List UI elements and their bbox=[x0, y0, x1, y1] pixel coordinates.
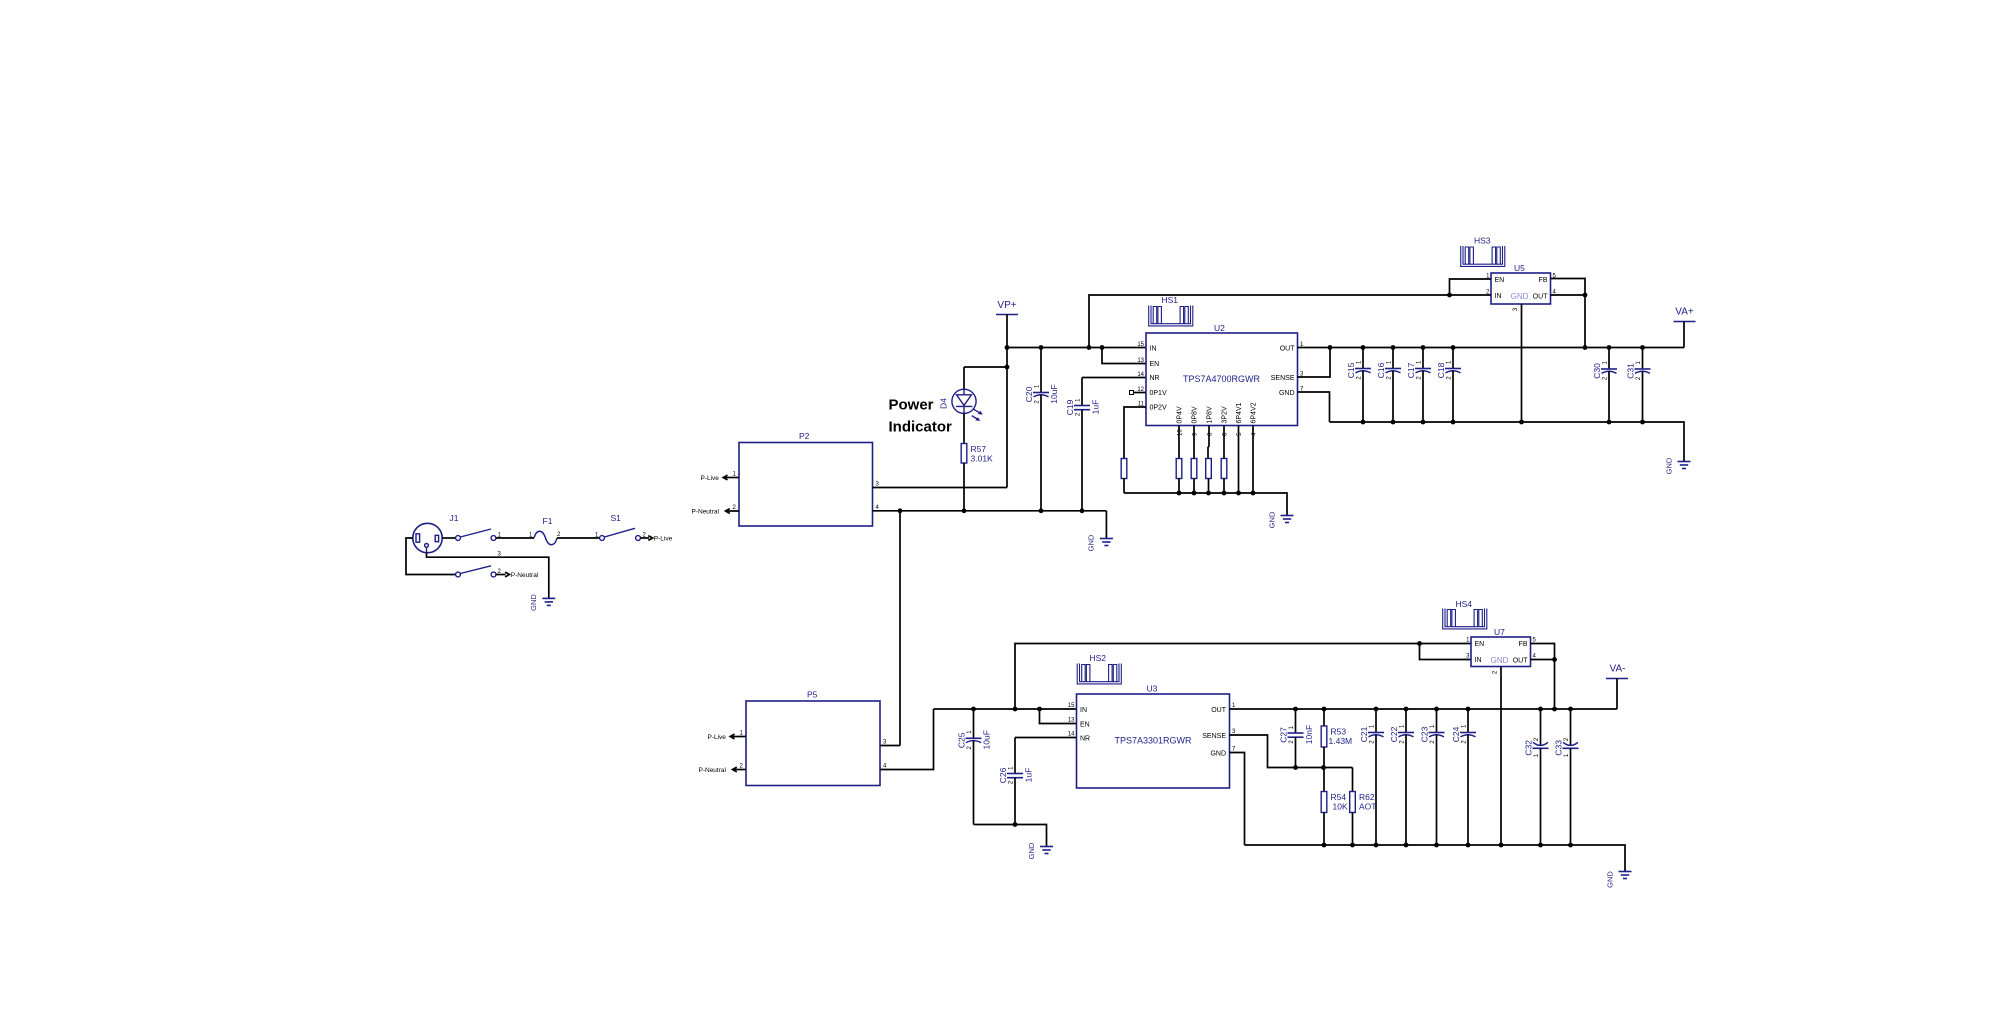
svg-text:P2: P2 bbox=[799, 431, 810, 441]
junction R57 bottom bbox=[962, 508, 967, 513]
wire C26 to U3 NR bbox=[1015, 737, 1077, 739]
svg-text:6P4V1: 6P4V1 bbox=[1236, 402, 1243, 423]
wire F1 to S1 bbox=[557, 537, 600, 539]
svg-text:GND: GND bbox=[1027, 842, 1036, 859]
capacitor C20 bbox=[1024, 348, 1059, 511]
svg-text:S1: S1 bbox=[611, 513, 622, 523]
wire P2 pin4 rail (secondary return) bbox=[873, 505, 1107, 511]
wire VP+ riser bbox=[1006, 315, 1008, 488]
svg-text:OUT: OUT bbox=[1513, 657, 1529, 664]
capacitor C32 bbox=[1524, 707, 1549, 848]
resistor R62 bbox=[1350, 768, 1377, 846]
svg-text:P5: P5 bbox=[807, 690, 818, 700]
heatsink HS4 bbox=[1443, 599, 1487, 629]
ground (VA+ output rail) bbox=[1665, 457, 1691, 474]
wire U5 GND pin down bbox=[1521, 304, 1523, 422]
power flag VA+ bbox=[1674, 307, 1696, 348]
wire resistor to gnd rail bbox=[1123, 479, 1125, 494]
wire to P-Neutral off-page bbox=[496, 574, 506, 576]
svg-text:R62: R62 bbox=[1359, 792, 1375, 802]
node P-Live (into P5 pin 1) bbox=[708, 734, 735, 741]
svg-text:EN: EN bbox=[1150, 361, 1160, 368]
svg-text:P-Neutral: P-Neutral bbox=[699, 767, 727, 774]
wire D4 to R57 bbox=[963, 413, 965, 443]
wire C19 to U2 NR bbox=[1082, 377, 1146, 379]
junction U7 EN riser bbox=[1013, 707, 1018, 712]
ground (C25 C26) bbox=[1027, 842, 1053, 859]
svg-text:C27: C27 bbox=[1279, 727, 1289, 743]
wire U2 SENSE up to OUT bbox=[1298, 348, 1331, 378]
wire U5 FB to OUT bbox=[1551, 279, 1586, 296]
svg-text:HS2: HS2 bbox=[1090, 653, 1107, 663]
svg-text:GND: GND bbox=[1511, 292, 1529, 301]
wire bottom ground rail bbox=[1245, 845, 1626, 872]
svg-text:AOT: AOT bbox=[1359, 802, 1376, 812]
wire U2 bottom pin 6P4V2 bbox=[1252, 426, 1258, 494]
svg-text:P-Neutral: P-Neutral bbox=[511, 572, 539, 579]
pin 12 no-connect stub 0P1V bbox=[1130, 391, 1147, 395]
svg-text:GND: GND bbox=[1279, 390, 1295, 397]
svg-text:F1: F1 bbox=[543, 516, 553, 526]
capacitor C23 bbox=[1420, 707, 1445, 848]
capacitor C30 bbox=[1592, 345, 1617, 424]
wire U3 input rail bbox=[934, 708, 1077, 710]
capacitor C24 bbox=[1451, 707, 1476, 848]
svg-text:1.43M: 1.43M bbox=[1329, 736, 1353, 746]
wire U2 EN branch bbox=[1102, 348, 1146, 364]
svg-text:15: 15 bbox=[1137, 342, 1144, 348]
wire main input rail to U2 IN bbox=[1007, 347, 1146, 349]
svg-text:P-Live: P-Live bbox=[654, 536, 673, 543]
capacitor C27 bbox=[1279, 707, 1315, 768]
junction C25 top bbox=[971, 707, 976, 712]
svg-text:IN: IN bbox=[1475, 657, 1482, 664]
switch contact J1 bottom bbox=[456, 566, 496, 577]
resistor R (0P2V) bbox=[1121, 459, 1127, 479]
svg-text:1uF: 1uF bbox=[1091, 400, 1101, 415]
regulator U2 TPS7A4700RGWR bbox=[1137, 323, 1304, 426]
svg-text:14: 14 bbox=[1068, 732, 1075, 738]
wire S1 to P-Live off-page bbox=[640, 537, 649, 539]
wire U3 SENSE net bbox=[1230, 735, 1353, 768]
regulator U3 TPS7A3301RGWR bbox=[1068, 684, 1236, 789]
wire U2 OUT rail bbox=[1298, 347, 1685, 349]
ground (below J1) bbox=[529, 594, 555, 611]
capacitor C15 bbox=[1346, 345, 1371, 424]
heatsink HS1 bbox=[1149, 295, 1193, 326]
svg-text:Indicator: Indicator bbox=[889, 419, 953, 436]
resistor R (0P8V) bbox=[1191, 459, 1197, 479]
capacitor C33 bbox=[1554, 707, 1579, 848]
svg-text:C31: C31 bbox=[1626, 363, 1636, 379]
svg-text:IN: IN bbox=[1495, 293, 1502, 300]
svg-text:C21: C21 bbox=[1359, 726, 1369, 742]
switch contact J1 top bbox=[456, 529, 502, 540]
wire voltage-set ground rail bbox=[1124, 493, 1287, 516]
svg-text:GND: GND bbox=[1087, 534, 1096, 551]
wire U2 bottom pin 0P4V bbox=[1178, 426, 1184, 459]
svg-text:VA+: VA+ bbox=[1675, 307, 1694, 318]
wire U5 OUT down to VA+ rail bbox=[1551, 295, 1586, 348]
wire U7 OUT down to VA- rail bbox=[1531, 660, 1555, 710]
node P-Live (off-page arrow right) bbox=[648, 536, 672, 543]
svg-text:13: 13 bbox=[1137, 358, 1144, 364]
power flag VA- bbox=[1606, 664, 1628, 710]
svg-text:P-Live: P-Live bbox=[708, 734, 727, 741]
connector J1 bbox=[413, 513, 459, 553]
junction dots set rail bbox=[1177, 491, 1182, 496]
junction VP+ rail bbox=[1005, 345, 1010, 350]
svg-text:C33: C33 bbox=[1554, 740, 1564, 756]
svg-text:GND: GND bbox=[1606, 871, 1615, 888]
svg-text:GND: GND bbox=[1268, 511, 1277, 528]
capacitor C26 bbox=[998, 738, 1034, 825]
svg-text:10uF: 10uF bbox=[982, 730, 992, 749]
svg-text:C22: C22 bbox=[1389, 726, 1399, 742]
svg-text:EN: EN bbox=[1475, 641, 1485, 648]
regulator U7 bbox=[1466, 627, 1536, 674]
svg-text:U5: U5 bbox=[1514, 263, 1525, 273]
resistor R (1P8V) bbox=[1206, 459, 1212, 479]
wire output ground rail bbox=[1330, 422, 1685, 462]
wire U2 GND to output gnd rail bbox=[1298, 392, 1330, 422]
ground (below C19 rail) bbox=[1087, 534, 1113, 551]
annotation Power Indicator bbox=[889, 397, 953, 436]
svg-text:C17: C17 bbox=[1406, 362, 1416, 378]
svg-text:HS3: HS3 bbox=[1474, 236, 1491, 246]
svg-text:U7: U7 bbox=[1494, 627, 1505, 637]
capacitor C25 bbox=[957, 709, 992, 825]
svg-text:C15: C15 bbox=[1346, 362, 1356, 378]
svg-text:FB: FB bbox=[1519, 641, 1528, 648]
capacitor C16 bbox=[1376, 345, 1401, 424]
wire U2 bottom pin 6P4V1 bbox=[1237, 426, 1243, 494]
junction U5 IN riser bbox=[1087, 345, 1092, 350]
wire P5 pin1 bbox=[730, 731, 746, 737]
svg-text:R54: R54 bbox=[1331, 792, 1347, 802]
svg-text:R53: R53 bbox=[1331, 727, 1347, 737]
wire P5 pin2 bbox=[733, 764, 747, 770]
wire U2 bottom pin 3P2V bbox=[1223, 426, 1229, 459]
svg-text:P-Neutral: P-Neutral bbox=[692, 509, 720, 516]
fuse F1 bbox=[529, 516, 561, 545]
node P-Live (into P2 pin 1) bbox=[701, 475, 728, 482]
svg-text:HS1: HS1 bbox=[1162, 295, 1179, 305]
svg-text:C32: C32 bbox=[1524, 740, 1534, 756]
wire R57 to rail bbox=[963, 463, 965, 511]
wire U3 GND down bbox=[1230, 753, 1245, 846]
svg-text:C26: C26 bbox=[998, 767, 1008, 783]
svg-text:C18: C18 bbox=[1436, 362, 1446, 378]
junction C20 top bbox=[1039, 345, 1044, 350]
wire U2 bottom pin 1P8V bbox=[1208, 426, 1214, 459]
svg-text:3P2V: 3P2V bbox=[1222, 406, 1229, 423]
svg-text:0P4V: 0P4V bbox=[1177, 406, 1184, 423]
node P-Neutral (off-page arrow right) bbox=[498, 569, 539, 579]
svg-text:SENSE: SENSE bbox=[1271, 375, 1295, 382]
wire U5 EN loop bbox=[1450, 279, 1492, 295]
svg-text:Power: Power bbox=[889, 397, 934, 414]
svg-text:3.01K: 3.01K bbox=[971, 454, 994, 464]
junction U7 IN drop bbox=[1417, 641, 1422, 646]
wire U3 OUT rail (VA- rail) bbox=[1230, 708, 1618, 710]
wire U7 GND down bbox=[1500, 667, 1502, 846]
svg-text:OUT: OUT bbox=[1211, 707, 1227, 714]
wire P2 pin3 to VP+ riser bbox=[873, 482, 1008, 488]
svg-text:13: 13 bbox=[1068, 718, 1075, 724]
svg-text:OUT: OUT bbox=[1280, 346, 1296, 353]
junction P5 drop bbox=[898, 508, 903, 513]
transformer module P5 bbox=[746, 690, 880, 786]
capacitor C17 bbox=[1406, 345, 1431, 424]
svg-text:10nF: 10nF bbox=[1304, 725, 1314, 744]
wire U7 IN drop bbox=[1420, 644, 1472, 660]
wire down to P5 pin3 bbox=[899, 511, 901, 746]
svg-text:U2: U2 bbox=[1214, 323, 1225, 333]
svg-text:OUT: OUT bbox=[1533, 293, 1549, 300]
svg-text:IN: IN bbox=[1150, 346, 1157, 353]
svg-text:VP+: VP+ bbox=[997, 300, 1016, 311]
wire P5 pin4 up to U3 input rail bbox=[880, 709, 934, 770]
svg-text:10: 10 bbox=[1178, 429, 1184, 436]
svg-text:1P8V: 1P8V bbox=[1207, 406, 1214, 423]
svg-text:14: 14 bbox=[1137, 372, 1144, 378]
svg-text:EN: EN bbox=[1495, 277, 1505, 284]
capacitor C19 bbox=[1065, 378, 1101, 511]
heatsink HS3 bbox=[1461, 236, 1505, 267]
svg-text:C19: C19 bbox=[1065, 399, 1075, 415]
wire 0P2V pin 11 bbox=[1124, 407, 1146, 459]
resistor R57 bbox=[961, 444, 993, 464]
svg-text:C23: C23 bbox=[1420, 726, 1430, 742]
wire C25 C26 ground rail bbox=[974, 825, 1047, 847]
svg-text:SENSE: SENSE bbox=[1202, 733, 1226, 740]
LED D4 bbox=[939, 367, 983, 421]
svg-text:GND: GND bbox=[1491, 656, 1509, 665]
wire to fuse F1 bbox=[496, 537, 534, 539]
svg-text:C30: C30 bbox=[1592, 363, 1602, 379]
svg-text:0P1V: 0P1V bbox=[1150, 390, 1167, 397]
svg-text:6P4V2: 6P4V2 bbox=[1251, 402, 1258, 423]
svg-text:NR: NR bbox=[1150, 375, 1160, 382]
svg-text:GND: GND bbox=[1210, 751, 1226, 758]
svg-text:D4: D4 bbox=[939, 398, 949, 409]
junction U2 EN branch bbox=[1100, 345, 1105, 350]
svg-text:IN: IN bbox=[1080, 707, 1087, 714]
ground (U2 set rail) bbox=[1268, 511, 1294, 528]
resistor R (0P4V) bbox=[1176, 459, 1182, 479]
junction C19 bottom bbox=[1080, 508, 1085, 513]
wire U3 EN branch bbox=[1040, 709, 1077, 724]
wire D4 anode jog bbox=[964, 366, 1007, 368]
svg-text:R57: R57 bbox=[971, 444, 987, 454]
wire U7 EN riser and top line bbox=[1015, 644, 1471, 710]
wire J1 right pin to switch contact bbox=[442, 537, 455, 539]
svg-text:HS4: HS4 bbox=[1456, 599, 1473, 609]
svg-text:TPS7A3301RGWR: TPS7A3301RGWR bbox=[1114, 736, 1192, 746]
svg-text:15: 15 bbox=[1068, 703, 1075, 709]
wire J1 left pin down to lower switch bbox=[406, 538, 456, 575]
svg-text:10K: 10K bbox=[1333, 802, 1348, 812]
svg-text:NR: NR bbox=[1080, 736, 1090, 743]
power flag VP+ bbox=[996, 300, 1018, 315]
svg-text:EN: EN bbox=[1080, 722, 1090, 729]
wire U2 bottom pin 0P8V bbox=[1193, 426, 1199, 459]
svg-text:GND: GND bbox=[529, 594, 538, 611]
wire U5 IN line to VP+ rail bbox=[1089, 295, 1491, 348]
svg-text:0P2V: 0P2V bbox=[1150, 405, 1167, 412]
regulator U5 bbox=[1486, 263, 1556, 311]
capacitor C18 bbox=[1436, 345, 1461, 424]
svg-text:0P8V: 0P8V bbox=[1192, 406, 1199, 423]
capacitor C31 bbox=[1626, 345, 1651, 424]
junction C20 bottom bbox=[1039, 508, 1044, 513]
node P-Neutral (into P5 pin 2) bbox=[699, 767, 737, 774]
wire P2 pin1 bbox=[723, 472, 739, 478]
resistor R54 bbox=[1321, 768, 1348, 846]
svg-text:10uF: 10uF bbox=[1049, 384, 1059, 403]
ground (bottom right) bbox=[1606, 871, 1632, 888]
svg-text:FB: FB bbox=[1539, 277, 1548, 284]
resistor R (3P2V) bbox=[1221, 459, 1227, 479]
svg-text:C16: C16 bbox=[1376, 362, 1386, 378]
node P-Neutral (into P2 pin 2) bbox=[692, 509, 730, 516]
wire P2 pin2 bbox=[726, 505, 740, 511]
switch S1 bbox=[595, 513, 647, 540]
transformer module P2 bbox=[739, 431, 873, 526]
svg-text:J1: J1 bbox=[450, 513, 459, 523]
capacitor C21 bbox=[1359, 707, 1384, 848]
resistor R53 bbox=[1321, 707, 1352, 768]
wire J1 pin3 to ground bbox=[427, 552, 549, 599]
wire P5 pin3 stub bbox=[880, 740, 900, 746]
svg-text:C24: C24 bbox=[1451, 726, 1461, 742]
svg-text:GND: GND bbox=[1665, 457, 1674, 474]
svg-text:TPS7A4700RGWR: TPS7A4700RGWR bbox=[1183, 374, 1261, 384]
svg-text:VA-: VA- bbox=[1610, 664, 1626, 675]
wire U7 FB to OUT bbox=[1531, 644, 1555, 660]
wire rail corner down to ground bbox=[1105, 511, 1107, 539]
svg-text:1uF: 1uF bbox=[1024, 768, 1034, 783]
svg-text:U3: U3 bbox=[1147, 684, 1158, 694]
svg-text:C25: C25 bbox=[957, 732, 967, 748]
capacitor C22 bbox=[1389, 707, 1414, 848]
heatsink HS2 bbox=[1077, 653, 1121, 684]
svg-text:P-Live: P-Live bbox=[701, 475, 720, 482]
junction U3 EN branch bbox=[1037, 707, 1042, 712]
svg-text:C20: C20 bbox=[1024, 386, 1034, 402]
